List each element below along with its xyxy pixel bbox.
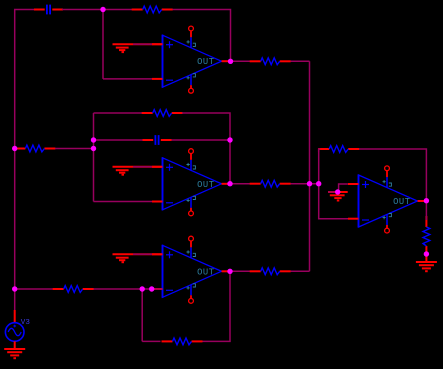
node A dot bbox=[100, 7, 105, 12]
wire R1 to top-right corner and down to U1 output bbox=[173, 10, 231, 62]
op-amp U3 bbox=[152, 236, 230, 303]
wire R6 to rail1 bottom bbox=[291, 270, 310, 272]
source V3 bbox=[5, 323, 24, 342]
svg-text:V3: V3 bbox=[21, 319, 31, 327]
wire corner overlay at R8 left bbox=[319, 149, 321, 152]
capacitor C2 bbox=[143, 135, 172, 145]
node G4 dot bbox=[335, 189, 340, 194]
node left rail bottom dot bbox=[12, 286, 17, 291]
node rail2 sum dot bbox=[316, 181, 321, 186]
op-amp U4 bbox=[348, 166, 426, 233]
wire rail2 vertical bbox=[319, 149, 349, 219]
wire node A to R1 bbox=[103, 9, 132, 11]
ground G6 bbox=[4, 349, 25, 358]
wire R2 to right rail down to U2 out bbox=[182, 113, 230, 184]
wire rail1 vertical bbox=[309, 61, 311, 271]
resistor R1 bbox=[132, 6, 173, 13]
wire R7 to rail2 bbox=[291, 183, 319, 185]
ground G1 bbox=[113, 44, 163, 52]
wire cap row right bbox=[172, 139, 231, 141]
node U1 out dot bbox=[228, 59, 233, 64]
resistor R3 bbox=[14, 145, 55, 152]
wire node A down bbox=[102, 10, 104, 79]
wire top from rail to C1 bbox=[14, 9, 35, 11]
resistor R9 load bbox=[423, 216, 430, 257]
source V3 lead top bbox=[14, 310, 16, 323]
wire R9 bottom stub bbox=[425, 253, 427, 255]
node U3 out dot bbox=[227, 269, 232, 274]
wire over G4 lead bbox=[328, 191, 338, 193]
resistor R6 bbox=[250, 268, 291, 275]
wire middle block bottom to U2 - input bbox=[94, 201, 153, 203]
wire U3 output to R6 bbox=[230, 270, 251, 272]
wire cap row left bbox=[94, 139, 143, 141]
resistor R5 bbox=[53, 286, 94, 293]
node U4 out dot bbox=[424, 198, 429, 203]
node cap row right dot bbox=[227, 137, 232, 142]
wire left rail bbox=[14, 10, 16, 311]
wire R4 to rail1 corner bbox=[291, 60, 310, 62]
wire U1 output to R4 bbox=[230, 60, 251, 62]
node U3 in dot bbox=[149, 286, 154, 291]
resistor R4 bbox=[250, 58, 291, 65]
op-amp U2 bbox=[152, 149, 230, 216]
ground G2 bbox=[113, 167, 163, 175]
wire to U1 inverting input bbox=[103, 78, 153, 80]
node cap row left dot bbox=[91, 137, 96, 142]
resistor R7 bbox=[250, 180, 291, 187]
wire R8 to output rail of U4 bbox=[359, 149, 426, 201]
node rail1 sum dot bbox=[307, 181, 312, 186]
node U3 fb dot bbox=[140, 286, 145, 291]
wire U4 output down to load bbox=[425, 201, 427, 220]
node U2 out dot bbox=[227, 181, 232, 186]
source V3 lead bottom bbox=[14, 341, 16, 349]
wire left rail to R5 bbox=[15, 288, 54, 290]
ground G3 bbox=[113, 254, 163, 262]
ground G4 bbox=[328, 192, 348, 201]
resistor R8 bbox=[318, 146, 359, 153]
op-amp U1 bbox=[152, 26, 230, 93]
wire U4 + input jog bbox=[339, 184, 348, 192]
node load dot bbox=[424, 251, 429, 256]
wire R5 to U3 - input bbox=[94, 288, 163, 290]
node left rail mid dot bbox=[12, 146, 17, 151]
resistor R2 bbox=[142, 110, 183, 117]
node input mid dot bbox=[91, 146, 96, 151]
wire over G1 lead to U1 + input bbox=[133, 43, 152, 45]
wire C1 to node A bbox=[62, 9, 103, 11]
wire feedback left vertical of U3 bbox=[141, 289, 143, 341]
wire R3 to middle block left vertical bbox=[55, 148, 94, 150]
wire U2 output to R7 bbox=[230, 183, 251, 185]
ground G5 lead bbox=[425, 254, 427, 262]
ground G5 bbox=[416, 262, 437, 271]
wire feedback bottom right up to U3 output bbox=[203, 271, 231, 341]
wire overlay U3 inverting lead bbox=[151, 288, 162, 290]
wire middle block top bbox=[94, 112, 143, 114]
wire feedback bottom left bbox=[142, 340, 160, 342]
wire over G3 lead to U3 + input bbox=[133, 253, 152, 255]
capacitor C1 bbox=[34, 5, 63, 15]
resistor R10 bbox=[162, 338, 203, 345]
wire middle block left vertical bbox=[93, 113, 95, 202]
wire over G2 lead to U2 + input bbox=[133, 166, 152, 168]
